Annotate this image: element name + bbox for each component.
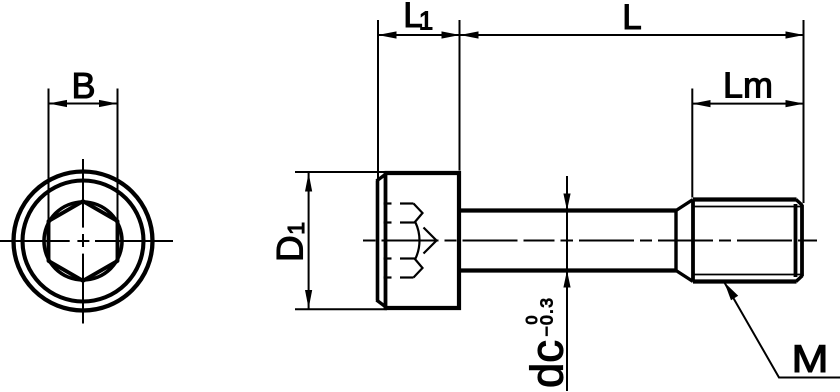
thread crest bottom [693, 279, 797, 283]
svg-text:0: 0 [524, 316, 541, 325]
label dc with tolerance (rotated) [522, 297, 573, 388]
thread runout boundary [674, 211, 677, 271]
hidden socket hex corner chevron bottom [414, 259, 423, 278]
dimension D1 extension lines [295, 171, 387, 173]
head face chamfer diagonals [377, 174, 387, 182]
svg-text:M: M [791, 337, 828, 381]
svg-text:B: B [71, 65, 95, 106]
dimension arrows top [305, 31, 804, 308]
head chamfer circle (end view) [23, 181, 144, 302]
label D1 (rotated) [270, 222, 311, 262]
thread end chamfer diagonal top [796, 200, 803, 206]
side view center line [363, 240, 817, 242]
head outline (side view) [385, 173, 460, 308]
dimension line Lm [692, 103, 804, 105]
head outer circle (end view) [14, 172, 153, 311]
svg-text:L: L [622, 0, 641, 37]
hidden drill point chevron [424, 228, 437, 254]
thread runout cone bottom [676, 271, 693, 282]
wire vertical center line (end view) [82, 159, 84, 228]
thread end face [800, 205, 804, 276]
head left face (side view) [376, 181, 380, 301]
dimension extension lines (top) [295, 20, 804, 391]
thread start edge [691, 200, 695, 282]
thread end chamfer diagonal bottom [796, 276, 803, 282]
svg-text:Lm: Lm [723, 65, 773, 106]
dimension B extension lines [49, 89, 118, 220]
thread runout cone top [676, 200, 693, 211]
dimension line L1 and L [378, 34, 804, 36]
svg-text:D1: D1 [270, 222, 311, 262]
label M [791, 337, 828, 381]
socket chamfer circle (end view) [44, 202, 122, 280]
dimension line dc [566, 176, 568, 391]
thread crest top [693, 197, 797, 201]
hidden socket hex corner chevron top [414, 204, 423, 223]
leader line to M [724, 282, 840, 377]
dimension B line [49, 103, 118, 105]
dimension B arrows [49, 100, 118, 107]
dimension D1 arrows [305, 173, 312, 192]
thread root top (thin) [695, 206, 801, 208]
hex socket (end view) [49, 201, 118, 281]
thread root bottom (thin) [695, 274, 801, 276]
dimension line D1 [308, 173, 310, 310]
svg-text:L1: L1 [403, 0, 433, 36]
svg-text:dc: dc [522, 340, 573, 388]
hidden socket bottom arc [416, 223, 420, 259]
shank bottom edge [459, 268, 676, 272]
leader arrow [724, 282, 738, 300]
hidden socket lines (side view) [384, 204, 437, 278]
dimension dc arrows [563, 194, 570, 211]
head chamfer edge line (side view) [384, 173, 388, 309]
node end-view center lines [0, 159, 173, 324]
wire horizontal center line (end view) [0, 240, 70, 242]
thread end chamfer line [794, 204, 798, 277]
shank top edge [459, 208, 676, 212]
